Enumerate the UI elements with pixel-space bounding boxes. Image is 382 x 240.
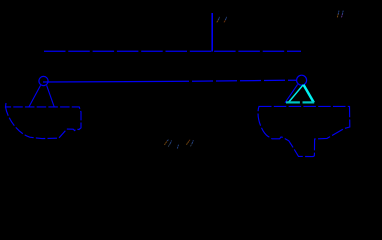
wire lower beam line solid part bbox=[43, 80, 171, 83]
cyan triangle base bbox=[286, 101, 314, 103]
left support triangle leg right bbox=[47, 85, 55, 107]
cyan triangle right leg bbox=[304, 85, 314, 103]
caption glyphs left group bbox=[165, 140, 179, 149]
right support blue left leg bbox=[285, 84, 298, 102]
ground blob left bbox=[6, 103, 82, 139]
caption glyphs right group bbox=[187, 139, 194, 146]
label P bbox=[217, 17, 226, 22]
pin circle left support bbox=[39, 76, 48, 85]
ground blob right bbox=[258, 106, 350, 156]
wire top beam line (dashed) bbox=[44, 50, 301, 52]
left support triangle leg left bbox=[29, 85, 41, 107]
pin circle right support bbox=[297, 75, 307, 85]
wire lower beam line dashed part bbox=[171, 80, 296, 81]
label top-right bbox=[337, 11, 343, 17]
force P line bbox=[211, 13, 213, 52]
cyan triangle left leg bbox=[288, 85, 303, 103]
